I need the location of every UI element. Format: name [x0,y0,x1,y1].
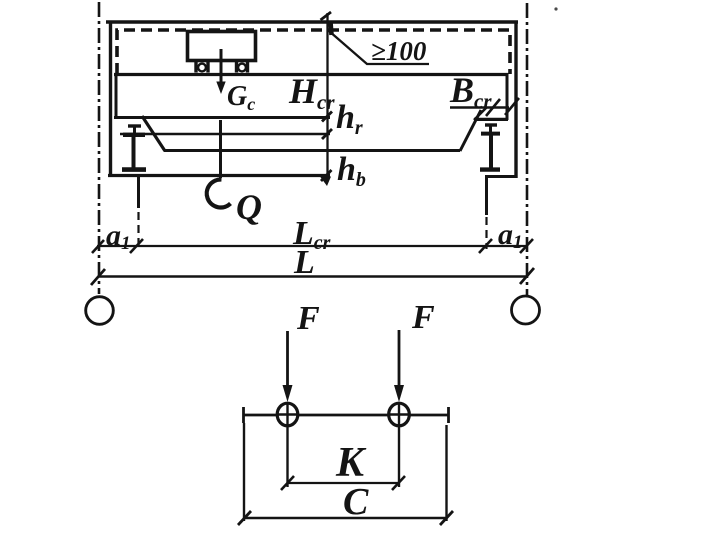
tick at end carriage [322,129,332,139]
trolley body [188,32,256,61]
dashed clearance envelope [117,30,510,74]
Lcr tick left rail [130,239,143,253]
Bcr tick 3 [505,98,519,115]
L dimension line [98,275,527,278]
left taper diagonal [142,116,165,151]
load arrow Gc [220,49,223,84]
crane girder left edge [115,73,118,119]
axle end bar right [447,407,450,423]
C extension left [243,423,245,521]
hook [207,179,231,207]
K dimension line [288,482,400,484]
trolley right wheel [235,61,238,73]
Lcr tick left axis [92,240,104,253]
left rail head [128,124,141,127]
crane girder bottom left part [114,116,330,119]
svg-text:Q: Q [236,187,262,227]
svg-text:K: K [335,440,367,486]
svg-text:F: F [296,300,320,337]
Lcr tick right rail [479,239,492,253]
vertical dimension line Hcr/hr/hb [326,13,328,180]
tick at hb [321,170,332,181]
K tick left [281,476,294,490]
right axis circle [512,296,540,324]
svg-text:hb: hb [337,151,366,191]
building right wall [514,21,517,178]
C dimension line [244,517,447,520]
svg-text:≥100: ≥100 [371,36,427,66]
force arrow left [286,331,289,388]
C tick left [238,511,251,525]
left column axis line [98,2,101,294]
right taper diagonal [460,110,481,151]
Lcr dimension line [97,245,527,247]
K tick right [392,476,405,490]
L tick left [91,269,105,285]
svg-text:hr: hr [336,99,363,139]
hb level line / left corbel step [108,174,330,177]
Bcr lower line [474,118,508,121]
tick at girder bottom [322,112,332,122]
crane girder right edge [506,73,509,120]
bottom chord [164,149,460,152]
Bcr tick 2 [486,99,500,116]
svg-text:a1: a1 [106,219,131,254]
trolley left wheel [194,61,197,73]
left axis circle [86,297,114,325]
force arrow right [398,330,401,388]
building frame top [106,20,518,23]
right runway beam I-section [481,132,500,136]
C extension right [445,425,447,521]
right corbel step [485,175,517,178]
wheel axis right [398,402,400,487]
Lcr tick right axis [520,239,533,253]
Bcr dimension line [450,106,509,109]
svg-text:C: C [343,481,369,523]
wheel circle left [277,403,298,426]
hoist rope [219,120,222,178]
building left wall [109,21,112,176]
L tick right [520,268,534,284]
left runway beam I-section [123,133,145,137]
axle end bar left [242,407,245,423]
Bcr tick 1 [474,107,487,120]
svg-text:Gc: Gc [227,81,255,114]
svg-text:L: L [293,244,315,281]
end carriage line [120,133,330,136]
axle line [244,414,449,417]
crane girder top [114,73,509,76]
wheel circle right [389,403,410,426]
crane girder bottom right part [474,118,508,121]
tick at roof [321,12,332,20]
left column face below corbel [137,176,140,208]
right column face below corbel [485,177,488,215]
paper speck [554,7,557,10]
svg-text:a1: a1 [498,218,523,253]
wheel axis left [286,402,288,487]
right column axis line [526,3,529,295]
right rail head [485,123,497,126]
clearance leader line [329,31,429,64]
svg-text:F: F [411,299,435,336]
C tick right [440,511,453,525]
